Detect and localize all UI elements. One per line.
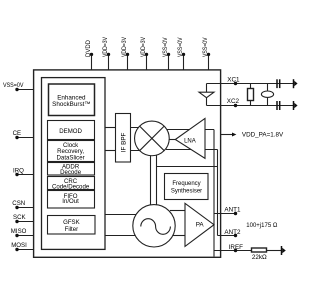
- svg-text:PA: PA: [196, 221, 205, 228]
- svg-text:DVDD: DVDD: [85, 40, 92, 57]
- svg-text:In/Out: In/Out: [62, 198, 79, 205]
- svg-text:Synthesiser: Synthesiser: [171, 189, 202, 195]
- svg-text:ANT2: ANT2: [224, 229, 241, 236]
- svg-text:100+j175 Ω: 100+j175 Ω: [246, 223, 278, 229]
- svg-text:22kΩ: 22kΩ: [252, 254, 267, 261]
- svg-text:SCK: SCK: [13, 214, 26, 221]
- svg-text:LNA: LNA: [184, 138, 196, 144]
- svg-text:VSS=0V: VSS=0V: [162, 37, 169, 57]
- svg-text:GFSK: GFSK: [63, 219, 80, 226]
- svg-text:VDD=3V: VDD=3V: [140, 36, 147, 57]
- svg-text:DataSlicer: DataSlicer: [57, 154, 85, 161]
- svg-text:CSN: CSN: [12, 200, 25, 207]
- svg-text:XC1: XC1: [227, 76, 240, 83]
- svg-text:XC2: XC2: [227, 98, 240, 105]
- svg-text:IREF: IREF: [229, 244, 243, 251]
- svg-text:VDD_PA=1.8V: VDD_PA=1.8V: [242, 131, 284, 138]
- svg-text:DEMOD: DEMOD: [59, 128, 82, 135]
- svg-text:Frequency: Frequency: [172, 181, 200, 187]
- svg-text:IRQ: IRQ: [13, 167, 24, 174]
- svg-text:Code/Decode: Code/Decode: [52, 183, 90, 190]
- svg-text:MISO: MISO: [11, 228, 27, 235]
- svg-text:Filter: Filter: [65, 226, 79, 233]
- svg-text:VDD=3V: VDD=3V: [121, 36, 128, 57]
- svg-text:ShockBurst™: ShockBurst™: [52, 101, 91, 108]
- svg-text:ANT1: ANT1: [224, 206, 241, 213]
- svg-text:IF BPF: IF BPF: [121, 132, 128, 152]
- svg-text:VSS=0V: VSS=0V: [202, 37, 209, 57]
- svg-text:VSS=0V: VSS=0V: [3, 82, 24, 89]
- svg-text:VSS=0V: VSS=0V: [177, 37, 184, 57]
- svg-text:VDD=3V: VDD=3V: [102, 36, 109, 57]
- svg-text:MOSI: MOSI: [11, 242, 27, 249]
- svg-text:Decode: Decode: [60, 169, 82, 176]
- svg-text:CE: CE: [13, 130, 21, 137]
